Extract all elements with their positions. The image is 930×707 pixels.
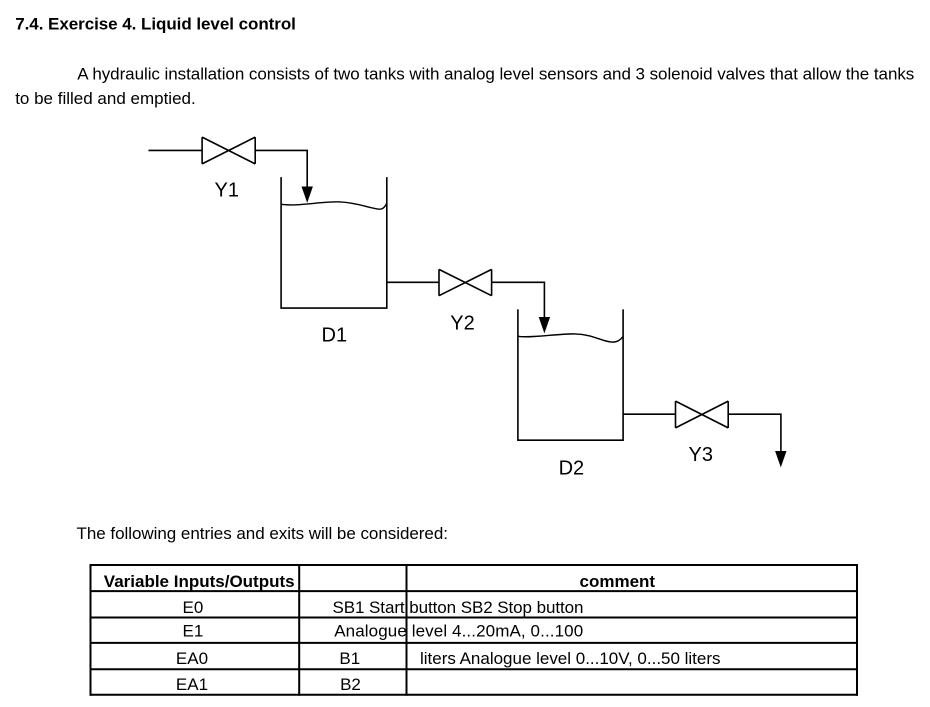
svg-text:Y1: Y1: [215, 180, 239, 202]
water line D2: [518, 334, 623, 342]
arrowhead into tank D1: [302, 187, 313, 203]
table right border: [856, 564, 858, 696]
wire valve Y2 to tank D2: [492, 282, 545, 321]
water line D1: [281, 202, 387, 209]
wire valve Y3 to drain: [728, 414, 781, 454]
table borders: [90, 564, 859, 696]
svg-text:SB1 Start button SB2 Stop butt: SB1 Start button SB2 Stop button: [333, 598, 584, 617]
svg-text:liters Analogue level 0...10V,: liters Analogue level 0...10V, 0...50 li…: [420, 649, 721, 668]
wire tank D1 outlet: [387, 281, 439, 283]
svg-text:EA1: EA1: [176, 675, 208, 694]
svg-text:D1: D1: [322, 325, 348, 347]
wire tank D2 outlet: [623, 413, 675, 415]
svg-text:A hydraulic installation consi: A hydraulic installation consists of two…: [77, 65, 914, 84]
svg-text:Y2: Y2: [450, 313, 474, 335]
table row border 3: [90, 642, 859, 644]
svg-text:7.4. Exercise 4. Liquid level: 7.4. Exercise 4. Liquid level control: [15, 15, 296, 34]
svg-text:B1: B1: [339, 649, 360, 668]
wire inlet stub: [149, 149, 203, 151]
svg-text:E1: E1: [183, 621, 204, 640]
wire valve Y1 to tank D1: [255, 150, 307, 190]
svg-text:Analogue level 4...20mA, 0...1: Analogue level 4...20mA, 0...100: [334, 621, 583, 640]
table column border 2: [406, 564, 408, 696]
arrowhead into tank D2: [539, 317, 550, 333]
tank D2: [518, 309, 623, 440]
svg-text:comment: comment: [580, 572, 656, 591]
svg-text:The following entries and exit: The following entries and exits will be …: [77, 524, 449, 543]
valve Y3: [676, 401, 729, 428]
table row border 1: [90, 590, 859, 592]
svg-text:Variable Inputs/Outputs: Variable Inputs/Outputs: [104, 572, 295, 591]
svg-text:E0: E0: [183, 598, 204, 617]
arrowhead drain outlet: [775, 451, 786, 467]
svg-text:EA0: EA0: [176, 649, 208, 668]
svg-text:to be filled and emptied.: to be filled and emptied.: [15, 89, 196, 108]
tank D1: [281, 177, 387, 308]
svg-text:B2: B2: [340, 675, 361, 694]
svg-text:D2: D2: [559, 458, 585, 480]
valve Y1: [202, 137, 255, 164]
table column border 1: [298, 564, 300, 696]
table row border 2: [90, 617, 859, 619]
table outer bottom border: [90, 694, 859, 696]
svg-text:Y3: Y3: [689, 444, 713, 466]
table row border 4: [90, 668, 859, 670]
valve Y2: [439, 269, 492, 295]
table left border: [90, 564, 92, 696]
table outer top border: [90, 564, 859, 566]
